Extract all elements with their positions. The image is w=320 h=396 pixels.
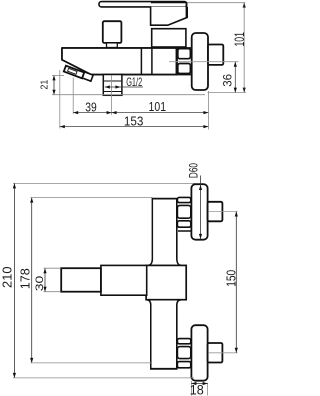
dim 101 vertical right: [243, 3, 245, 93]
dim 39: [73, 112, 111, 114]
connector centerline: [111, 75, 113, 115]
extension line top (101 vertical dim): [188, 2, 246, 4]
svg-text:101: 101: [231, 32, 247, 47]
faucet body (top view): [62, 48, 192, 75]
svg-text:18: 18: [190, 382, 204, 396]
body right end cap: [176, 48, 178, 75]
body joint lines: [140, 48, 142, 75]
svg-text:153: 153: [124, 113, 144, 128]
top escutcheon (front view): [191, 184, 207, 240]
bottom wall stub: [208, 343, 223, 363]
svg-text:36: 36: [223, 74, 235, 87]
column upper: [148, 258, 182, 265]
aerator inner detail: [68, 68, 77, 74]
handle lever (top view): [99, 2, 187, 7]
svg-text:G1/2: G1/2: [126, 75, 142, 89]
dim 178: [31, 198, 33, 363]
dim 153: [60, 126, 209, 128]
svg-text:D60: D60: [187, 163, 201, 178]
dim 101 horizontal: [112, 112, 209, 114]
svg-text:39: 39: [85, 100, 97, 115]
top wall stub: [208, 202, 223, 222]
ext line spout tip (153): [59, 70, 61, 129]
dim 21 vertical left: [53, 75, 55, 94]
dim 18: [190, 381, 192, 396]
spout aerator band: [64, 66, 84, 79]
svg-text:210: 210: [0, 266, 15, 288]
bottom escutcheon (front view): [191, 325, 207, 381]
ext lines for 21: [52, 74, 64, 76]
centerline bottom connection: [209, 352, 238, 354]
bottom hex nut (front view): [177, 339, 190, 344]
svg-text:101: 101: [149, 99, 167, 114]
centerline top connection: [209, 211, 238, 213]
ext line escutcheon right (101/153): [207, 91, 209, 130]
spout main (front view): [101, 265, 147, 295]
diverter foot: [107, 43, 118, 48]
hex nut (top view): [178, 49, 191, 59]
top hex nut (front view): [177, 197, 190, 202]
ext line bottom of column (178): [31, 362, 152, 364]
ext line aerator (39): [72, 78, 74, 114]
dim 30: [44, 268, 46, 292]
G1/2 thread dim arrows: [105, 86, 143, 88]
dim D60: [200, 176, 202, 239]
wall stub (top view): [208, 45, 223, 65]
centerline (top view): [169, 61, 239, 63]
spout tip (front view): [61, 268, 101, 292]
ext line top of column (178): [31, 197, 153, 199]
dim 210: [13, 183, 15, 378]
svg-text:30: 30: [34, 276, 46, 292]
dim 36 vertical: [234, 62, 236, 93]
svg-text:21: 21: [39, 79, 51, 89]
dim 150: [235, 212, 237, 353]
diverter knob: [103, 21, 122, 43]
ext line bottom right: [208, 92, 247, 94]
handle hub upper: [151, 7, 188, 26]
svg-text:178: 178: [18, 268, 33, 289]
handle hub lower: [152, 29, 186, 47]
mid body: [146, 265, 186, 299]
spout tube (top view): [81, 72, 93, 82]
wall escutcheon (top view): [192, 33, 208, 90]
ext line top of fixture (210): [13, 182, 195, 184]
shower outlet connector G1/2: [103, 75, 122, 96]
svg-text:150: 150: [224, 270, 239, 287]
ext line bottom of fixture (210): [13, 377, 194, 379]
column lower: [147, 300, 181, 369]
